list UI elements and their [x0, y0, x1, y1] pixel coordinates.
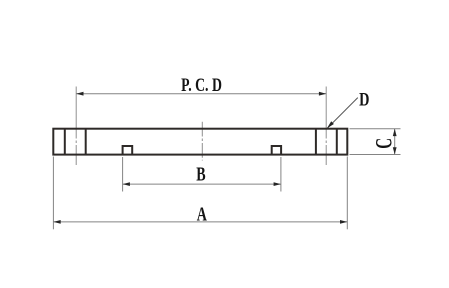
svg-text:B: B [196, 163, 205, 185]
svg-text:P. C. D: P. C. D [181, 74, 222, 96]
svg-text:A: A [197, 203, 208, 225]
svg-text:C: C [372, 138, 397, 149]
svg-text:D: D [359, 89, 369, 110]
